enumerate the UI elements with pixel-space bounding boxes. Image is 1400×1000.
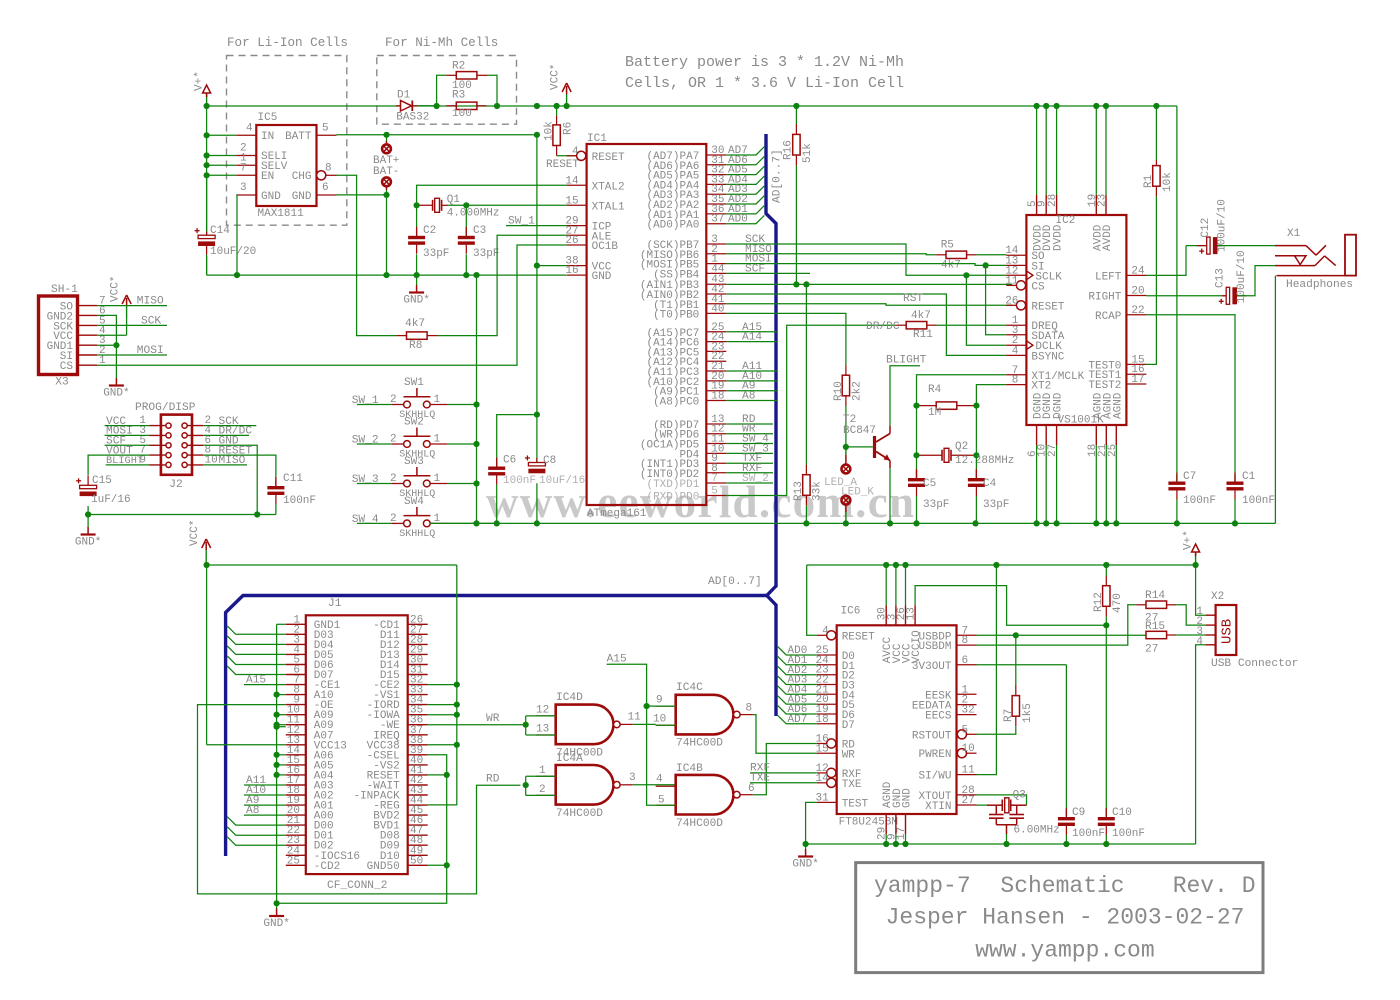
svg-text:IC1: IC1: [587, 133, 607, 145]
svg-text:10: 10: [653, 714, 666, 726]
capacitor C11 100nF: [275, 480, 277, 486]
svg-text:SW_2: SW_2: [742, 473, 769, 485]
crystal Q2 12.288MHz: [941, 450, 943, 461]
wire IC2 XT2 to xtal node: [976, 385, 1006, 406]
svg-text:Headphones: Headphones: [1286, 279, 1353, 291]
dashed box Ni-Mh: [377, 56, 517, 125]
svg-text:33pF: 33pF: [983, 499, 1009, 511]
wire T2 emitter to GND: [889, 461, 891, 469]
wire VCC rail y=106: [207, 105, 401, 107]
wire PB3 to R16/R13 divider and IC2 CS: [726, 283, 1012, 285]
svg-text:20: 20: [1131, 286, 1144, 298]
svg-text:PWREN: PWREN: [918, 749, 951, 761]
wire RD label (PD7): [726, 423, 773, 425]
svg-text:LEFT: LEFT: [1095, 271, 1122, 283]
svg-text:15: 15: [815, 743, 828, 755]
svg-text:100uF/10: 100uF/10: [1217, 199, 1229, 252]
wire A15 net vertical to IC4C/IC4B: [607, 664, 656, 805]
svg-text:IC5: IC5: [258, 112, 278, 124]
wire TXF label (PD3): [726, 462, 773, 464]
wire IC5 SELV pin1: [207, 164, 237, 166]
wire X3 GND2 to GND1: [97, 315, 116, 345]
connector X2 USB body: [1216, 605, 1237, 655]
svg-text:XTIN: XTIN: [925, 801, 951, 813]
resistor R10 2k2: [842, 375, 849, 396]
svg-text:SW_2: SW_2: [352, 435, 379, 447]
wire C13 to jack ring: [1237, 266, 1275, 296]
wire GND line y=275.1: [207, 274, 567, 276]
wire R10 to LED_A / T2 base node: [845, 406, 847, 447]
svg-text:AD0: AD0: [728, 214, 748, 226]
svg-text:Schematic: Schematic: [1000, 873, 1124, 899]
svg-text:RST: RST: [903, 293, 923, 305]
IC6 left pins: [827, 631, 836, 640]
svg-text:4: 4: [656, 774, 663, 786]
svg-text:C3: C3: [473, 225, 486, 237]
wire J2 DR/DC label right: [203, 434, 249, 436]
svg-text:RD: RD: [486, 774, 500, 786]
svg-text:74HC00D: 74HC00D: [676, 738, 723, 750]
op-amp IC2 VS1001K body: [1026, 215, 1126, 425]
wire SW_4 label (PD5): [726, 443, 773, 445]
svg-text:MAX1811: MAX1811: [258, 208, 305, 220]
capacitor C10 100nF: [1105, 625, 1107, 817]
wire IC4C out to IC6 WR: [753, 715, 817, 754]
wire R5 to IC2 SO pin14: [976, 254, 1006, 256]
svg-text:37: 37: [711, 214, 724, 226]
svg-text:17: 17: [1131, 374, 1144, 386]
svg-text:8: 8: [746, 703, 753, 715]
svg-text:33pF: 33pF: [423, 248, 449, 260]
wire A11 label (PC3): [726, 370, 777, 372]
svg-text:IC4D: IC4D: [556, 692, 583, 704]
dashed box Li-Ion: [227, 56, 347, 226]
svg-text:26: 26: [1005, 295, 1018, 307]
svg-text:Q2: Q2: [955, 441, 968, 453]
svg-text:TXE: TXE: [842, 779, 862, 791]
resonator Q3 6.00MHz: [977, 795, 1027, 805]
svg-text:For Ni-Mh Cells: For Ni-Mh Cells: [385, 36, 498, 50]
wire J1 -OE long to RD net: [198, 705, 521, 894]
nand IC4B 74HC00D: [676, 775, 734, 815]
ground GND* below C15: [87, 515, 89, 528]
svg-text:RESET: RESET: [842, 631, 875, 643]
IC2 left pins: [1006, 254, 1026, 256]
wire VCC pin38: [537, 265, 567, 267]
svg-text:32: 32: [962, 705, 975, 717]
svg-text:8: 8: [1012, 375, 1019, 387]
IC1 left pins: [577, 151, 586, 160]
resistor R13 33k: [805, 284, 807, 464]
svg-text:13: 13: [906, 607, 918, 620]
svg-text:www.yampp.com: www.yampp.com: [975, 938, 1154, 964]
svg-text:J2: J2: [169, 479, 182, 491]
switch SW2 SKHHLQ: [357, 443, 392, 445]
svg-text:C5: C5: [923, 478, 936, 490]
svg-text:C9: C9: [1072, 807, 1085, 819]
svg-text:C7: C7: [1183, 471, 1196, 483]
power symbol V+* at USB: [1195, 552, 1197, 565]
power symbol V+* (top left): [206, 93, 208, 106]
svg-text:5: 5: [322, 123, 329, 135]
svg-text:SW_1: SW_1: [352, 395, 379, 407]
IC5 pin stubs left: [236, 134, 256, 136]
wire IC6 RESET to V+ rail: [807, 565, 817, 635]
resistor R3: [456, 102, 477, 109]
wire GND rail y=523.4: [430, 522, 1275, 524]
svg-text:23: 23: [1097, 194, 1109, 207]
svg-text:R14: R14: [1145, 590, 1165, 602]
svg-text:For Li-Ion Cells: For Li-Ion Cells: [227, 36, 348, 50]
svg-text:GND*: GND*: [403, 295, 429, 307]
svg-text:10: 10: [962, 743, 975, 755]
wire IC2 XT1/MCLK to xtal node: [917, 375, 1007, 406]
wire IC2 LEFT to C12: [1146, 246, 1186, 276]
svg-text:XTAL1: XTAL1: [592, 201, 625, 213]
wire R11 to IC2 DREQ pin1: [937, 324, 1007, 326]
svg-text:R10: R10: [833, 381, 845, 401]
svg-text:J1: J1: [328, 598, 342, 610]
wire SW_2 label (PD1): [726, 482, 773, 484]
wire PB2 to IC2 BSYNC: [726, 294, 1006, 355]
wires IC2 bottom grounds: [1036, 445, 1038, 523]
wire IC5 EN pin7: [207, 174, 237, 176]
svg-text:C6: C6: [503, 455, 516, 467]
svg-text:24: 24: [1131, 265, 1145, 277]
wire VCC net J1 area: [207, 564, 457, 566]
IC1 right pin stubs and names: [706, 154, 726, 156]
wire J1 A15 label (-CE1 pin7): [244, 684, 286, 686]
resistor R4 1M: [936, 402, 957, 409]
J1 pin stubs and names: [286, 623, 306, 625]
svg-text:VCC*: VCC*: [189, 520, 201, 546]
wire X3 SO / MISO label: [97, 305, 167, 307]
svg-text:33pF: 33pF: [923, 499, 949, 511]
connector J1 CF_CONN_2 body: [306, 615, 408, 874]
wire OC1B to X3 CS: [97, 245, 566, 365]
svg-text:5: 5: [711, 486, 718, 498]
wire X3 GND1: [97, 344, 116, 346]
wire J2 VCC label: [105, 425, 150, 427]
svg-text:Battery power is 3 * 1.2V Ni-M: Battery power is 3 * 1.2V Ni-Mh: [625, 54, 904, 71]
svg-text:USBDM: USBDM: [918, 641, 951, 653]
svg-text:4k7: 4k7: [405, 318, 425, 330]
svg-text:OC1B: OC1B: [592, 241, 619, 253]
wires IC6 bottom grounds to rail: [885, 834, 887, 844]
wire IC2 RIGHT to C13: [1146, 295, 1222, 297]
svg-text:IC4B: IC4B: [676, 763, 703, 775]
svg-text:SCF: SCF: [745, 263, 765, 275]
diode D1 BAS32: [401, 101, 412, 112]
capacitor C2 33pF: [416, 205, 418, 236]
wire SI/WU to V+ rail: [977, 565, 997, 775]
IC2 right pins: [1126, 274, 1146, 276]
svg-text:17: 17: [896, 827, 908, 840]
wire J1 GND1 + grounded address pins vertical: [276, 624, 278, 903]
wire XTAL2 to crystal: [417, 185, 567, 205]
svg-text:MISO: MISO: [137, 296, 164, 308]
svg-text:8: 8: [962, 635, 969, 647]
switch SW4 SKHHLQ: [357, 522, 392, 524]
svg-text:(A8)PC0: (A8)PC0: [653, 397, 699, 409]
resistor R14 27: [1146, 601, 1167, 608]
svg-text:BAS32: BAS32: [396, 112, 429, 124]
svg-text:6: 6: [322, 182, 329, 194]
svg-text:VCC*: VCC*: [550, 64, 562, 90]
svg-text:100nF: 100nF: [503, 475, 536, 487]
power symbol VCC* (top): [566, 94, 568, 106]
wire J2 MOSI label: [105, 434, 150, 436]
wire RCAP to C1: [1146, 315, 1235, 482]
wire A9 label (PC1): [726, 390, 777, 392]
svg-text:10uF/20: 10uF/20: [210, 246, 256, 258]
svg-text:USB: USB: [1220, 619, 1236, 644]
svg-text:100nF: 100nF: [1183, 495, 1216, 507]
IC5 pin stubs right: [317, 134, 337, 136]
svg-text:CF_CONN_2: CF_CONN_2: [327, 880, 387, 892]
svg-text:USB Connector: USB Connector: [1211, 658, 1298, 670]
svg-text:50: 50: [410, 855, 423, 867]
wire X3 VCC pin4: [97, 334, 126, 336]
svg-text:AVDD: AVDD: [1102, 224, 1114, 251]
svg-text:BLIGHT: BLIGHT: [886, 355, 927, 367]
svg-text:SW_4: SW_4: [352, 514, 379, 526]
svg-text:(AD0)PA0: (AD0)PA0: [646, 220, 699, 232]
svg-text:X1: X1: [1287, 228, 1301, 240]
wire RXF label (PD2): [726, 472, 773, 474]
svg-text:R11: R11: [913, 329, 933, 341]
svg-text:15: 15: [565, 195, 578, 207]
svg-text:CHG: CHG: [292, 171, 312, 183]
resistor R2: [437, 75, 447, 106]
svg-text:IN: IN: [261, 131, 274, 143]
svg-text:DVDD: DVDD: [1053, 224, 1065, 251]
wire C12 to jack tip: [1218, 245, 1276, 247]
op-amp IC1 ATmega161 body: [587, 144, 707, 505]
wire R1 to TEST0: [1146, 196, 1156, 364]
IC6 right pins: [957, 634, 977, 636]
wire SCK net (PB7 to IC2 SCLK and DCLK): [726, 244, 1006, 275]
wire J2 MISO label right: [203, 464, 247, 466]
svg-text:8: 8: [325, 163, 332, 175]
svg-text:2k2: 2k2: [852, 381, 864, 401]
svg-text:27: 27: [1047, 444, 1059, 457]
IC5 CHG pin8 circle: [317, 171, 326, 180]
svg-text:6.00MHz: 6.00MHz: [1014, 825, 1060, 837]
svg-text:R3: R3: [452, 90, 465, 102]
svg-text:GND: GND: [261, 191, 281, 203]
svg-text:6: 6: [962, 655, 969, 667]
bus Y-split to J1 branch: [767, 586, 776, 605]
svg-text:CS: CS: [1031, 281, 1045, 293]
svg-text:(T0)PB0: (T0)PB0: [653, 309, 699, 321]
connector J2 PROG/DISP body: [161, 415, 192, 475]
wire xtal left leg: [916, 406, 918, 456]
wire IC4B out to IC6 RD: [753, 744, 817, 795]
nand IC4D 74HC00D: [556, 705, 614, 745]
wire T2 collector to BLIGHT label: [889, 426, 891, 434]
ground GND* below C2 area: [416, 275, 418, 285]
wire IC5 SELI pin2: [207, 155, 237, 157]
wire J2 RESET to C11: [203, 455, 276, 486]
svg-text:33pF: 33pF: [473, 248, 499, 260]
IC6 bottom pins AGND/GND/GND: [885, 814, 887, 834]
wire T2 base: [846, 446, 873, 448]
svg-text:27: 27: [1145, 644, 1158, 656]
svg-text:40: 40: [711, 303, 724, 315]
wire ALE to R8: [437, 235, 567, 335]
svg-text:Rev. D: Rev. D: [1173, 873, 1256, 899]
svg-text:TXE: TXE: [750, 772, 770, 784]
wire A8 label (PC0): [726, 400, 777, 402]
svg-text:16: 16: [565, 265, 578, 277]
svg-text:2: 2: [390, 434, 397, 446]
svg-text:V+*: V+*: [194, 71, 206, 91]
svg-text:51k: 51k: [802, 143, 814, 163]
svg-text:SW_1: SW_1: [508, 216, 535, 228]
nand IC4C 74HC00D: [676, 695, 734, 735]
wire R14 to X2 pin2: [1176, 605, 1205, 625]
svg-text:18: 18: [711, 391, 724, 403]
svg-text:7: 7: [711, 473, 718, 485]
wire RXF label stub: [750, 772, 817, 774]
nand IC4A 74HC00D: [556, 765, 614, 805]
power symbol VCC* above J1: [205, 550, 207, 562]
svg-text:C1: C1: [1242, 471, 1256, 483]
svg-text:100nF: 100nF: [1242, 495, 1275, 507]
terminal LED_A: [845, 447, 847, 455]
svg-text:Cells, OR 1 * 3.6 V Li-Ion Cel: Cells, OR 1 * 3.6 V Li-Ion Cell: [625, 75, 904, 92]
svg-text:IC4A: IC4A: [556, 753, 583, 765]
svg-text:A15: A15: [607, 653, 627, 665]
capacitor C1 100nF: [1234, 475, 1236, 482]
svg-text:R2: R2: [452, 61, 465, 73]
svg-text:RESET: RESET: [546, 159, 579, 171]
svg-text:RSTOUT: RSTOUT: [912, 730, 952, 742]
svg-text:GND*: GND*: [263, 918, 289, 930]
svg-text:6: 6: [748, 783, 755, 795]
svg-text:11: 11: [962, 765, 976, 777]
svg-text:BSYNC: BSYNC: [1031, 351, 1064, 363]
svg-text:C2: C2: [423, 225, 436, 237]
svg-text:RIGHT: RIGHT: [1088, 292, 1121, 304]
svg-text:BC847: BC847: [843, 425, 876, 437]
wire IC4D out to IC4C in10: [633, 723, 656, 725]
svg-text:9: 9: [656, 695, 663, 707]
svg-text:C4: C4: [983, 478, 997, 490]
bus AD[0..7] vertical at IC1: [766, 134, 776, 587]
wire IC5 GND pin6 / BAT- node: [337, 194, 387, 196]
svg-text:(RXD)PD0: (RXD)PD0: [646, 492, 699, 504]
svg-text:A14: A14: [742, 332, 762, 344]
svg-text:4: 4: [1196, 636, 1203, 648]
wire V+ rail over IC6: [807, 564, 1196, 566]
svg-text:100: 100: [452, 108, 472, 120]
svg-text:SKHHLQ: SKHHLQ: [399, 529, 435, 540]
wire TXE label stub: [750, 782, 817, 784]
capacitor C8 10uF/16 electrolytic: [536, 458, 538, 463]
svg-text:SW4: SW4: [404, 496, 424, 508]
svg-text:10k: 10k: [544, 121, 556, 141]
svg-text:2: 2: [390, 473, 397, 485]
svg-text:10k: 10k: [1162, 172, 1174, 192]
wire R15 to X2 pin3: [1176, 634, 1205, 636]
svg-text:R5: R5: [941, 239, 954, 251]
svg-text:R7: R7: [1003, 709, 1015, 722]
svg-text:4.000MHz: 4.000MHz: [447, 208, 500, 220]
wire VCCIO via R12 node: [915, 586, 1106, 626]
svg-text:26: 26: [565, 235, 578, 247]
wire J2 SCK label right: [203, 425, 256, 427]
wire C6 branch: [497, 415, 537, 467]
svg-text:AD[0..7]: AD[0..7]: [708, 576, 762, 588]
svg-text:2: 2: [539, 784, 546, 796]
svg-text:R1: R1: [1143, 174, 1155, 188]
svg-text:C12: C12: [1200, 218, 1212, 238]
svg-text:22: 22: [1131, 305, 1144, 317]
capacitor C3 33pF: [465, 205, 467, 236]
op-amp IC5 MAX1811 body: [256, 125, 316, 206]
svg-text:11: 11: [628, 712, 642, 724]
wire PB1 RST to IC2 RESET: [726, 304, 1012, 306]
svg-text:AGND: AGND: [1112, 392, 1124, 419]
svg-text:Jesper Hansen - 2003-02-27: Jesper Hansen - 2003-02-27: [886, 905, 1245, 931]
resistor R5 4k7: [946, 251, 967, 258]
svg-text:3: 3: [240, 182, 247, 194]
svg-text:WR: WR: [842, 749, 856, 761]
svg-text:100nF: 100nF: [1112, 828, 1145, 840]
svg-text:R8: R8: [409, 340, 422, 352]
wire IC4A input join (RD): [525, 776, 527, 795]
wires IC6 top power to rail: [885, 565, 887, 605]
svg-text:SI/WU: SI/WU: [918, 771, 951, 783]
svg-text:TEST: TEST: [842, 798, 869, 810]
svg-text:1: 1: [434, 473, 441, 485]
svg-text:12.288MHz: 12.288MHz: [955, 455, 1014, 467]
svg-text:GND*: GND*: [75, 537, 101, 549]
wire switch common vertical to GND: [476, 275, 478, 523]
svg-text:EN: EN: [261, 171, 274, 183]
capacitor C13 100uF/10: [1222, 295, 1226, 297]
resistor R11 4k7: [906, 322, 927, 329]
wire J1 right VCC column (-CE2,-IORD,-IOWR,VCC38,-REG): [456, 565, 458, 805]
title block frame: [856, 863, 1263, 973]
bus breakout J1 D03-D07 (pins 2-6): [227, 626, 285, 634]
switch SW3 SKHHLQ: [357, 483, 392, 485]
svg-text:1M: 1M: [928, 407, 941, 419]
capacitor C12 100uF/10: [1186, 245, 1207, 247]
wire SDATA branch: [986, 265, 1007, 334]
wires IC2 top power: [1036, 106, 1038, 195]
wire IC5 CHG pin8 to R8 via x=356.6: [337, 175, 397, 335]
svg-text:(TXD)PD1: (TXD)PD1: [646, 479, 699, 491]
svg-text:WR: WR: [486, 713, 500, 725]
svg-text:3: 3: [629, 772, 636, 784]
svg-text:1k5: 1k5: [1022, 703, 1034, 723]
svg-text:12: 12: [536, 705, 549, 717]
svg-text:D1: D1: [397, 90, 411, 102]
svg-text:C14: C14: [210, 225, 230, 237]
svg-text:2: 2: [390, 394, 397, 406]
svg-text:GND*: GND*: [792, 859, 818, 871]
svg-text:4: 4: [1012, 345, 1019, 357]
svg-text:5: 5: [962, 724, 969, 736]
wire X3 SCK label: [97, 324, 167, 326]
svg-text:DGND: DGND: [1053, 392, 1065, 419]
svg-text:13: 13: [536, 724, 549, 736]
wire IC4A out to IC4B in4: [633, 784, 676, 786]
crystal Q1 4.000MHz: [432, 200, 434, 211]
